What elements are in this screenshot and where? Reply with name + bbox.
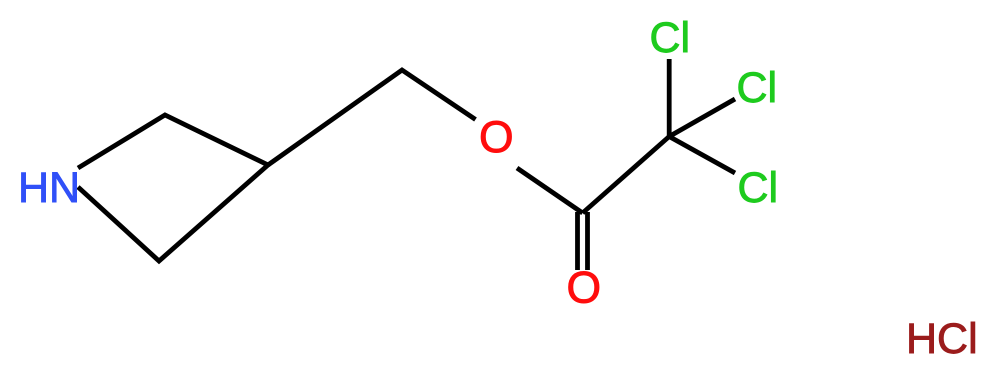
svg-text:Cl: Cl [738, 164, 779, 212]
svg-text:O: O [479, 113, 514, 162]
svg-text:HCl: HCl [906, 315, 978, 363]
svg-text:HN: HN [18, 164, 80, 212]
svg-text:Cl: Cl [650, 14, 691, 62]
svg-text:Cl: Cl [737, 64, 778, 112]
svg-text:O: O [567, 264, 602, 313]
